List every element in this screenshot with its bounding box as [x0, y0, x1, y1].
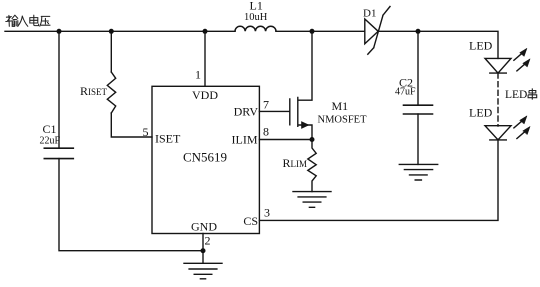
- diode D1: [365, 7, 390, 55]
- resistor RISET: [107, 72, 115, 113]
- label LED串: 串 glyph: [528, 88, 537, 99]
- LED D3 light arrow a: [514, 122, 521, 128]
- svg-text:5: 5: [143, 125, 149, 139]
- ground (main, below GND pin): [184, 263, 222, 279]
- svg-text:47uF: 47uF: [395, 87, 416, 98]
- ground (RLIM): [293, 192, 331, 208]
- IC U1 CN5619 box: [152, 86, 259, 233]
- wire: C1 down to bottom rail: [59, 159, 203, 251]
- LED D2 (top LED): [485, 58, 511, 73]
- svg-text:LED: LED: [505, 89, 527, 101]
- svg-text:1: 1: [195, 68, 201, 82]
- wire C2 node to LED string top corner: [418, 31, 498, 58]
- glyph 输: [6, 15, 18, 26]
- wire diode to C2 node: [380, 30, 419, 32]
- node: source/ILIM/RLIM: [310, 137, 315, 142]
- svg-text:DRV: DRV: [234, 105, 259, 119]
- capacitor C1: [44, 148, 73, 158]
- wire: C2 from rail: [417, 31, 419, 105]
- wire: CS pin 3 to LED string bottom: [259, 139, 498, 220]
- svg-text:C1: C1: [43, 122, 57, 136]
- wire: RISET to ISET pin 5: [111, 113, 152, 137]
- node: VDD tap on rail: [203, 29, 208, 34]
- ground (C2): [399, 164, 437, 180]
- svg-text:D1: D1: [363, 8, 376, 20]
- transistor M1 arrow: [302, 122, 309, 129]
- glyph 压: [40, 16, 50, 26]
- wire inductor to diode: [276, 30, 365, 32]
- node: GND / bottom rail: [201, 248, 206, 253]
- svg-text:2: 2: [205, 233, 211, 247]
- svg-text:CS: CS: [243, 214, 258, 228]
- node: drain tap on rail: [310, 29, 315, 34]
- node: RISET tap on rail: [109, 29, 114, 34]
- svg-text:RISET: RISET: [80, 84, 108, 98]
- LED D2 light arrow b: [517, 64, 525, 71]
- wire: RISET from rail: [110, 31, 112, 72]
- node: C2 tap on rail: [416, 29, 421, 34]
- wire: C2 to ground: [417, 114, 419, 164]
- svg-text:M1: M1: [332, 99, 349, 113]
- wire: C1 branch from rail: [58, 31, 60, 148]
- wire: GND pin 2: [202, 234, 204, 251]
- svg-text:NMOSFET: NMOSFET: [318, 115, 368, 126]
- svg-text:10uH: 10uH: [244, 12, 268, 23]
- node: C1 tap on rail: [57, 29, 62, 34]
- inductor L1: [235, 26, 276, 31]
- svg-text:GND: GND: [191, 220, 217, 234]
- svg-text:RLIM: RLIM: [283, 156, 308, 170]
- glyph 电: [30, 15, 39, 25]
- label 输入电压 (drawn glyphs): [6, 15, 50, 26]
- svg-text:LED: LED: [469, 39, 493, 53]
- wire: stub to main ground: [202, 251, 204, 264]
- LED D3 (bottom LED): [485, 126, 511, 140]
- svg-text:3: 3: [264, 206, 270, 220]
- svg-text:7: 7: [263, 98, 269, 112]
- glyph 入: [18, 16, 28, 26]
- svg-text:8: 8: [263, 125, 269, 139]
- wire: dashed LED string link: [497, 73, 499, 126]
- svg-text:CN5619: CN5619: [183, 150, 227, 165]
- resistor RLIM: [308, 140, 316, 192]
- wire top rail left (input to inductor): [5, 30, 235, 32]
- svg-text:VDD: VDD: [192, 88, 218, 102]
- LED D3 light arrow b: [517, 132, 525, 139]
- wire: DRV pin 7 to gate: [259, 110, 289, 112]
- svg-text:22uF: 22uF: [40, 136, 61, 147]
- svg-text:ILIM: ILIM: [232, 133, 258, 147]
- LED D2 light arrow a: [514, 54, 521, 60]
- capacitor C2: [404, 105, 433, 114]
- transistor M1 NMOSFET: [290, 31, 312, 139]
- svg-text:L1: L1: [250, 0, 263, 13]
- svg-text:ISET: ISET: [155, 132, 181, 146]
- wire: ILIM pin 8 to source node: [259, 139, 312, 141]
- wire: VDD pin 1: [204, 31, 206, 86]
- svg-text:LED: LED: [469, 106, 493, 120]
